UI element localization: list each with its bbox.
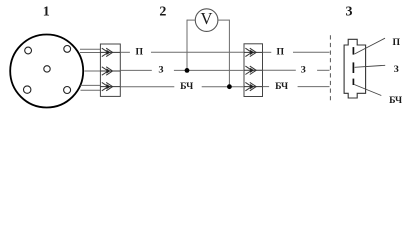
svg-text:V: V bbox=[201, 9, 213, 28]
svg-text:З: З bbox=[158, 65, 163, 76]
svg-text:3: 3 bbox=[346, 5, 353, 20]
svg-text:П: П bbox=[393, 37, 401, 48]
svg-text:З: З bbox=[301, 65, 306, 76]
svg-text:1: 1 bbox=[43, 5, 50, 20]
svg-text:З: З bbox=[394, 64, 399, 75]
svg-text:БЧ: БЧ bbox=[389, 95, 402, 106]
svg-text:БЧ: БЧ bbox=[275, 81, 288, 92]
svg-text:2: 2 bbox=[159, 5, 166, 20]
svg-text:БЧ: БЧ bbox=[180, 81, 193, 92]
svg-text:П: П bbox=[136, 47, 144, 58]
svg-text:П: П bbox=[277, 47, 285, 58]
